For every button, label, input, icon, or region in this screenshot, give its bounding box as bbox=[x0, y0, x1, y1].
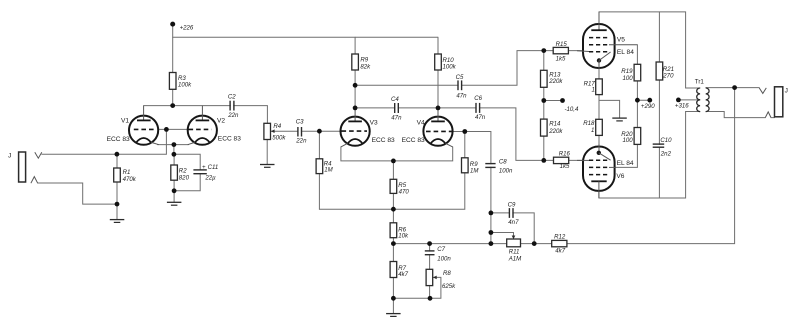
node cathode V3 V4 bbox=[391, 159, 396, 164]
wire +316 center tap bbox=[678, 99, 700, 101]
capacitor C2 bbox=[227, 93, 239, 119]
wire grid V3 bbox=[319, 130, 341, 132]
wire R13 R14 column bbox=[543, 51, 545, 161]
wire input sleeve to R1 bottom bbox=[38, 183, 117, 204]
wire cathode drop to bias node bbox=[173, 145, 175, 155]
svg-text:C2: C2 bbox=[228, 93, 236, 100]
svg-text:+: + bbox=[202, 164, 206, 171]
svg-text:C9: C9 bbox=[508, 202, 516, 209]
resistor R1 bbox=[114, 168, 137, 183]
node R13 R15 bbox=[541, 48, 546, 53]
svg-text:C8: C8 bbox=[499, 158, 507, 165]
svg-text:1M: 1M bbox=[324, 167, 333, 174]
wire C5 line to V5 grid network bbox=[355, 51, 544, 86]
pentode V5 bbox=[577, 12, 637, 69]
node R7 bottom bbox=[391, 296, 396, 301]
resistor R21 bbox=[656, 62, 674, 80]
wire +290 stub bbox=[637, 99, 649, 101]
svg-text:22n: 22n bbox=[227, 112, 239, 119]
wire test point -10,4 stub bbox=[544, 100, 563, 102]
resistor R3 bbox=[169, 73, 192, 90]
capacitor C3 bbox=[295, 118, 307, 144]
svg-text:C11: C11 bbox=[208, 164, 219, 171]
wire R2 column bbox=[173, 154, 175, 202]
node test point -10,4 bbox=[560, 98, 579, 113]
wire anode link through C4 bbox=[355, 107, 438, 109]
svg-text:22n: 22n bbox=[295, 137, 307, 144]
node R11 left bbox=[489, 241, 494, 246]
wire grid V4 to C8 column bbox=[452, 132, 491, 244]
node C3 grid V3 bbox=[317, 129, 322, 134]
svg-text:C6: C6 bbox=[474, 95, 482, 102]
wire V5 anode top line bbox=[599, 12, 686, 88]
wire lower rail to R9 1M riser bbox=[319, 132, 464, 210]
svg-text:C7: C7 bbox=[437, 246, 445, 253]
resistor R4 1M bbox=[316, 159, 334, 174]
wire bias ground branch bbox=[599, 100, 620, 117]
wire cathode rail V1-V2 bbox=[158, 144, 189, 146]
resistor R9 82k bbox=[352, 54, 371, 70]
svg-text:82k: 82k bbox=[360, 63, 371, 70]
svg-text:-10,4: -10,4 bbox=[565, 106, 580, 113]
svg-text:V3: V3 bbox=[370, 119, 378, 126]
svg-text:R4: R4 bbox=[273, 123, 281, 130]
node R2 C11 bottom bbox=[172, 188, 177, 193]
svg-text:220k: 220k bbox=[548, 78, 563, 85]
node R9 C5 bbox=[353, 83, 358, 88]
wire V5 anode lead upper bbox=[598, 12, 600, 25]
wire cathode loop V3-V4 bbox=[341, 147, 453, 161]
svg-text:1: 1 bbox=[592, 86, 595, 93]
wire R15 to V5 grid bbox=[544, 50, 584, 52]
capacitor C7 bbox=[424, 246, 451, 262]
wire R8 wiper loop bbox=[430, 277, 441, 298]
svg-text:4k7: 4k7 bbox=[555, 247, 565, 254]
wire R11 wiper branch bbox=[491, 233, 514, 239]
svg-text:R1: R1 bbox=[123, 169, 131, 176]
svg-text:C10: C10 bbox=[660, 137, 672, 144]
resistor R10 bbox=[435, 54, 457, 70]
svg-text:C3: C3 bbox=[296, 118, 304, 125]
node V3 anode bbox=[353, 106, 358, 111]
svg-text:1k5: 1k5 bbox=[560, 163, 570, 170]
svg-text:V2: V2 bbox=[217, 118, 225, 125]
svg-text:R16: R16 bbox=[559, 150, 571, 157]
wire C7 R8 column bbox=[429, 244, 431, 299]
resistor R13 bbox=[541, 70, 564, 87]
svg-text:1M: 1M bbox=[470, 167, 479, 174]
node R8 bottom bbox=[428, 296, 433, 301]
resistor R12 bbox=[552, 234, 567, 255]
triode V2 bbox=[188, 106, 242, 145]
wire R10 column to V4 anode bbox=[437, 37, 439, 108]
svg-text:Tr1: Tr1 bbox=[695, 78, 705, 85]
wire R5/R6/R7 column bbox=[392, 161, 394, 314]
svg-text:820: 820 bbox=[179, 175, 190, 182]
wire output sleeve tail bbox=[771, 117, 775, 119]
svg-text:1k5: 1k5 bbox=[556, 55, 566, 62]
svg-text:22µ: 22µ bbox=[204, 174, 216, 181]
svg-text:J: J bbox=[785, 87, 788, 94]
wire secondary bottom to output jack bbox=[706, 112, 766, 118]
node input grid bbox=[115, 152, 120, 157]
svg-text:R15: R15 bbox=[556, 41, 568, 48]
resistor R9 1M bbox=[462, 158, 480, 175]
svg-text:47n: 47n bbox=[391, 114, 402, 121]
node grid rail V1 V2 bbox=[164, 127, 169, 132]
wire R7 junction to R8 bottom bbox=[393, 297, 430, 299]
resistor R16 bbox=[554, 150, 571, 170]
resistor R2 bbox=[171, 165, 190, 182]
capacitor C9 bbox=[508, 202, 519, 227]
wire R9 82k column to V3 anode bbox=[354, 37, 356, 108]
node input sleeve bbox=[115, 202, 120, 207]
svg-text:J: J bbox=[8, 153, 11, 160]
svg-text:C5: C5 bbox=[456, 74, 464, 81]
node cathode rail V1 V2 bbox=[172, 142, 177, 147]
wire secondary top to output jack bbox=[706, 87, 759, 89]
svg-text:2n2: 2n2 bbox=[660, 151, 672, 158]
node C9 branch bbox=[489, 211, 494, 216]
capacitor C8 bbox=[485, 158, 514, 174]
wire R12 to output feedback riser bbox=[567, 88, 735, 244]
svg-text:500k: 500k bbox=[272, 134, 286, 141]
svg-text:100k: 100k bbox=[178, 82, 192, 89]
svg-text:R12: R12 bbox=[554, 234, 566, 241]
resistor R6 bbox=[390, 223, 409, 240]
wire R16 to V6 grid bbox=[544, 159, 584, 161]
wire C9 branch bbox=[491, 213, 534, 244]
wire primary top lead bbox=[686, 87, 700, 89]
wire feedback line R6 junction to R12 bbox=[393, 243, 551, 245]
svg-text:ECC 83: ECC 83 bbox=[107, 136, 130, 143]
node cathode bias bbox=[172, 152, 177, 157]
svg-text:+316: +316 bbox=[675, 102, 689, 109]
svg-text:V4: V4 bbox=[417, 119, 425, 126]
node +316 center tap bbox=[675, 98, 689, 110]
triode V3 bbox=[341, 108, 396, 147]
svg-text:100n: 100n bbox=[437, 255, 451, 262]
triode V1 bbox=[107, 106, 159, 145]
wire C6 line to V6 grid network bbox=[438, 108, 544, 160]
svg-text:1: 1 bbox=[591, 127, 594, 134]
ground bias V5 V6 bbox=[612, 118, 627, 121]
wire +226 supply rail bbox=[173, 36, 438, 38]
capacitor C5 bbox=[456, 74, 468, 100]
wire R21 C10 column bbox=[658, 12, 660, 198]
resistor R20 bbox=[621, 128, 640, 145]
svg-text:V6: V6 bbox=[616, 173, 624, 180]
node C7 top bbox=[427, 241, 432, 246]
svg-text:100k: 100k bbox=[443, 63, 457, 70]
resistor R5 bbox=[390, 179, 409, 195]
svg-text:EL 84: EL 84 bbox=[617, 49, 634, 56]
svg-text:R11: R11 bbox=[509, 249, 520, 256]
resistor R19 bbox=[621, 64, 640, 82]
svg-text:4k7: 4k7 bbox=[398, 271, 408, 278]
wire R1 column with ground lead bbox=[116, 154, 118, 219]
input jack J bbox=[8, 152, 42, 183]
svg-text:R14: R14 bbox=[549, 121, 561, 128]
svg-text:EL 84: EL 84 bbox=[617, 160, 634, 167]
wire R4 1M column bbox=[318, 131, 320, 209]
svg-text:V5: V5 bbox=[617, 37, 625, 44]
node C9 R12 bbox=[532, 241, 537, 246]
resistor R15 bbox=[553, 41, 568, 62]
node R6 bottom bbox=[391, 241, 396, 246]
svg-text:470: 470 bbox=[399, 189, 410, 196]
wire bias node to C11 bbox=[174, 154, 200, 191]
svg-text:ECC 83: ECC 83 bbox=[372, 137, 395, 144]
node R14 R16 bbox=[541, 158, 546, 163]
wire grid rail V1-V2 bbox=[156, 128, 189, 130]
resistor R18 bbox=[583, 119, 602, 135]
pentode V6 bbox=[577, 144, 634, 198]
capacitor C11 bbox=[193, 164, 219, 181]
node V4 anode bbox=[436, 106, 441, 111]
svg-text:+290: +290 bbox=[641, 103, 655, 110]
wire +226 column through R3 bbox=[172, 24, 174, 106]
resistor R7 bbox=[390, 262, 409, 279]
svg-text:625k: 625k bbox=[442, 283, 456, 290]
node secondary feedback bbox=[732, 85, 737, 90]
wire primary bottom lead bbox=[686, 111, 700, 113]
capacitor C6 bbox=[474, 95, 486, 121]
node +290 rail bbox=[635, 98, 640, 103]
svg-text:220k: 220k bbox=[548, 128, 563, 135]
ground R4 pot bbox=[260, 165, 275, 168]
ground R7 bbox=[386, 314, 401, 317]
svg-text:100: 100 bbox=[623, 137, 634, 144]
ground R2 C11 bbox=[167, 202, 182, 205]
potentiometer R11 bbox=[507, 236, 522, 263]
svg-text:R18: R18 bbox=[583, 120, 595, 127]
node +226 bbox=[170, 22, 194, 32]
capacitor C10 bbox=[652, 137, 672, 158]
node test point +290 bbox=[641, 98, 655, 110]
node R9 1M grid V4 bbox=[462, 129, 467, 134]
svg-text:ECC 83: ECC 83 bbox=[402, 137, 425, 144]
wire V5 cathode to R17 R18 to V6 cathode bbox=[598, 66, 600, 148]
svg-text:C4: C4 bbox=[391, 96, 399, 103]
svg-text:100: 100 bbox=[623, 75, 634, 82]
resistor R14 bbox=[541, 119, 564, 136]
wire R19 R20 column to V6 screen bbox=[614, 45, 637, 168]
capacitor C4 bbox=[391, 96, 402, 121]
wire anode rail V1/V2 to C2 to R4 pot bbox=[144, 106, 268, 124]
wire input top contact to grid riser bbox=[42, 129, 167, 154]
wire R4 pot ground lead bbox=[266, 140, 268, 165]
node R3 anode rail bbox=[170, 103, 175, 108]
svg-text:470k: 470k bbox=[123, 176, 137, 183]
potentiometer R4 500k bbox=[264, 123, 286, 142]
transformer Tr1 bbox=[695, 78, 709, 111]
node wiper branch bbox=[489, 230, 494, 235]
svg-text:R8: R8 bbox=[443, 270, 451, 277]
svg-text:A1M: A1M bbox=[508, 256, 522, 263]
svg-text:47n: 47n bbox=[456, 93, 467, 100]
wire V6 anode line to primary bottom bbox=[599, 112, 686, 199]
trimmer R8 bbox=[426, 269, 456, 290]
svg-text:ECC 83: ECC 83 bbox=[218, 136, 241, 143]
node R13 R14 bbox=[541, 98, 546, 103]
output jack J bbox=[759, 87, 788, 118]
svg-text:47n: 47n bbox=[475, 114, 486, 121]
svg-text:270: 270 bbox=[662, 72, 674, 79]
svg-text:100n: 100n bbox=[499, 167, 513, 174]
ground input bbox=[110, 220, 125, 223]
triode V4 bbox=[402, 108, 453, 147]
svg-text:V1: V1 bbox=[121, 118, 129, 125]
svg-text:4n7: 4n7 bbox=[508, 219, 519, 226]
svg-text:10k: 10k bbox=[398, 233, 409, 240]
node R5 bottom bbox=[391, 207, 396, 212]
resistor R17 bbox=[584, 79, 603, 95]
wire R4 wiper through C3 bbox=[271, 130, 319, 132]
svg-text:+226: +226 bbox=[180, 24, 194, 31]
